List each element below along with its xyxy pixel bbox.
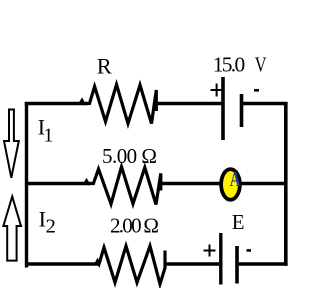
current arrow I1 (down) bbox=[4, 110, 19, 178]
battery E plus sign bbox=[204, 245, 216, 257]
current arrow I2 (up) bbox=[3, 197, 21, 261]
wire right vertical bbox=[284, 102, 288, 266]
svg-text:A: A bbox=[230, 167, 241, 191]
wire middle branch right bbox=[241, 182, 286, 185]
wire top branch right bbox=[242, 102, 288, 105]
ammeter A1 body bbox=[221, 169, 240, 200]
wire top branch left bbox=[25, 102, 87, 105]
svg-text:5.00 Ω: 5.00 Ω bbox=[102, 144, 157, 168]
wire bottom branch left bbox=[25, 262, 99, 265]
svg-text:V: V bbox=[255, 53, 267, 77]
svg-text:R: R bbox=[97, 53, 112, 78]
wire bottom branch right bbox=[237, 262, 288, 266]
battery E short plate bbox=[235, 246, 239, 284]
wire middle branch mid bbox=[161, 182, 222, 185]
svg-text:2.00 Ω: 2.00 Ω bbox=[110, 214, 159, 238]
svg-text:E: E bbox=[232, 210, 245, 234]
battery V1 plus sign bbox=[211, 84, 224, 97]
resistor 5.00 ohm bbox=[85, 167, 161, 205]
wire middle branch left bbox=[25, 182, 90, 185]
battery E long plate bbox=[219, 233, 222, 285]
battery V1 minus sign bbox=[254, 89, 259, 92]
resistor 2.00 ohm bbox=[96, 246, 165, 284]
battery E minus sign bbox=[247, 249, 252, 252]
battery V1 short plate bbox=[240, 94, 244, 127]
wire top branch mid bbox=[156, 102, 222, 105]
wire left vertical bbox=[25, 102, 28, 268]
battery V1 long plate bbox=[221, 77, 225, 140]
resistor R bbox=[80, 85, 156, 124]
svg-text:15.0: 15.0 bbox=[213, 53, 246, 77]
wire bottom branch mid bbox=[165, 262, 219, 265]
